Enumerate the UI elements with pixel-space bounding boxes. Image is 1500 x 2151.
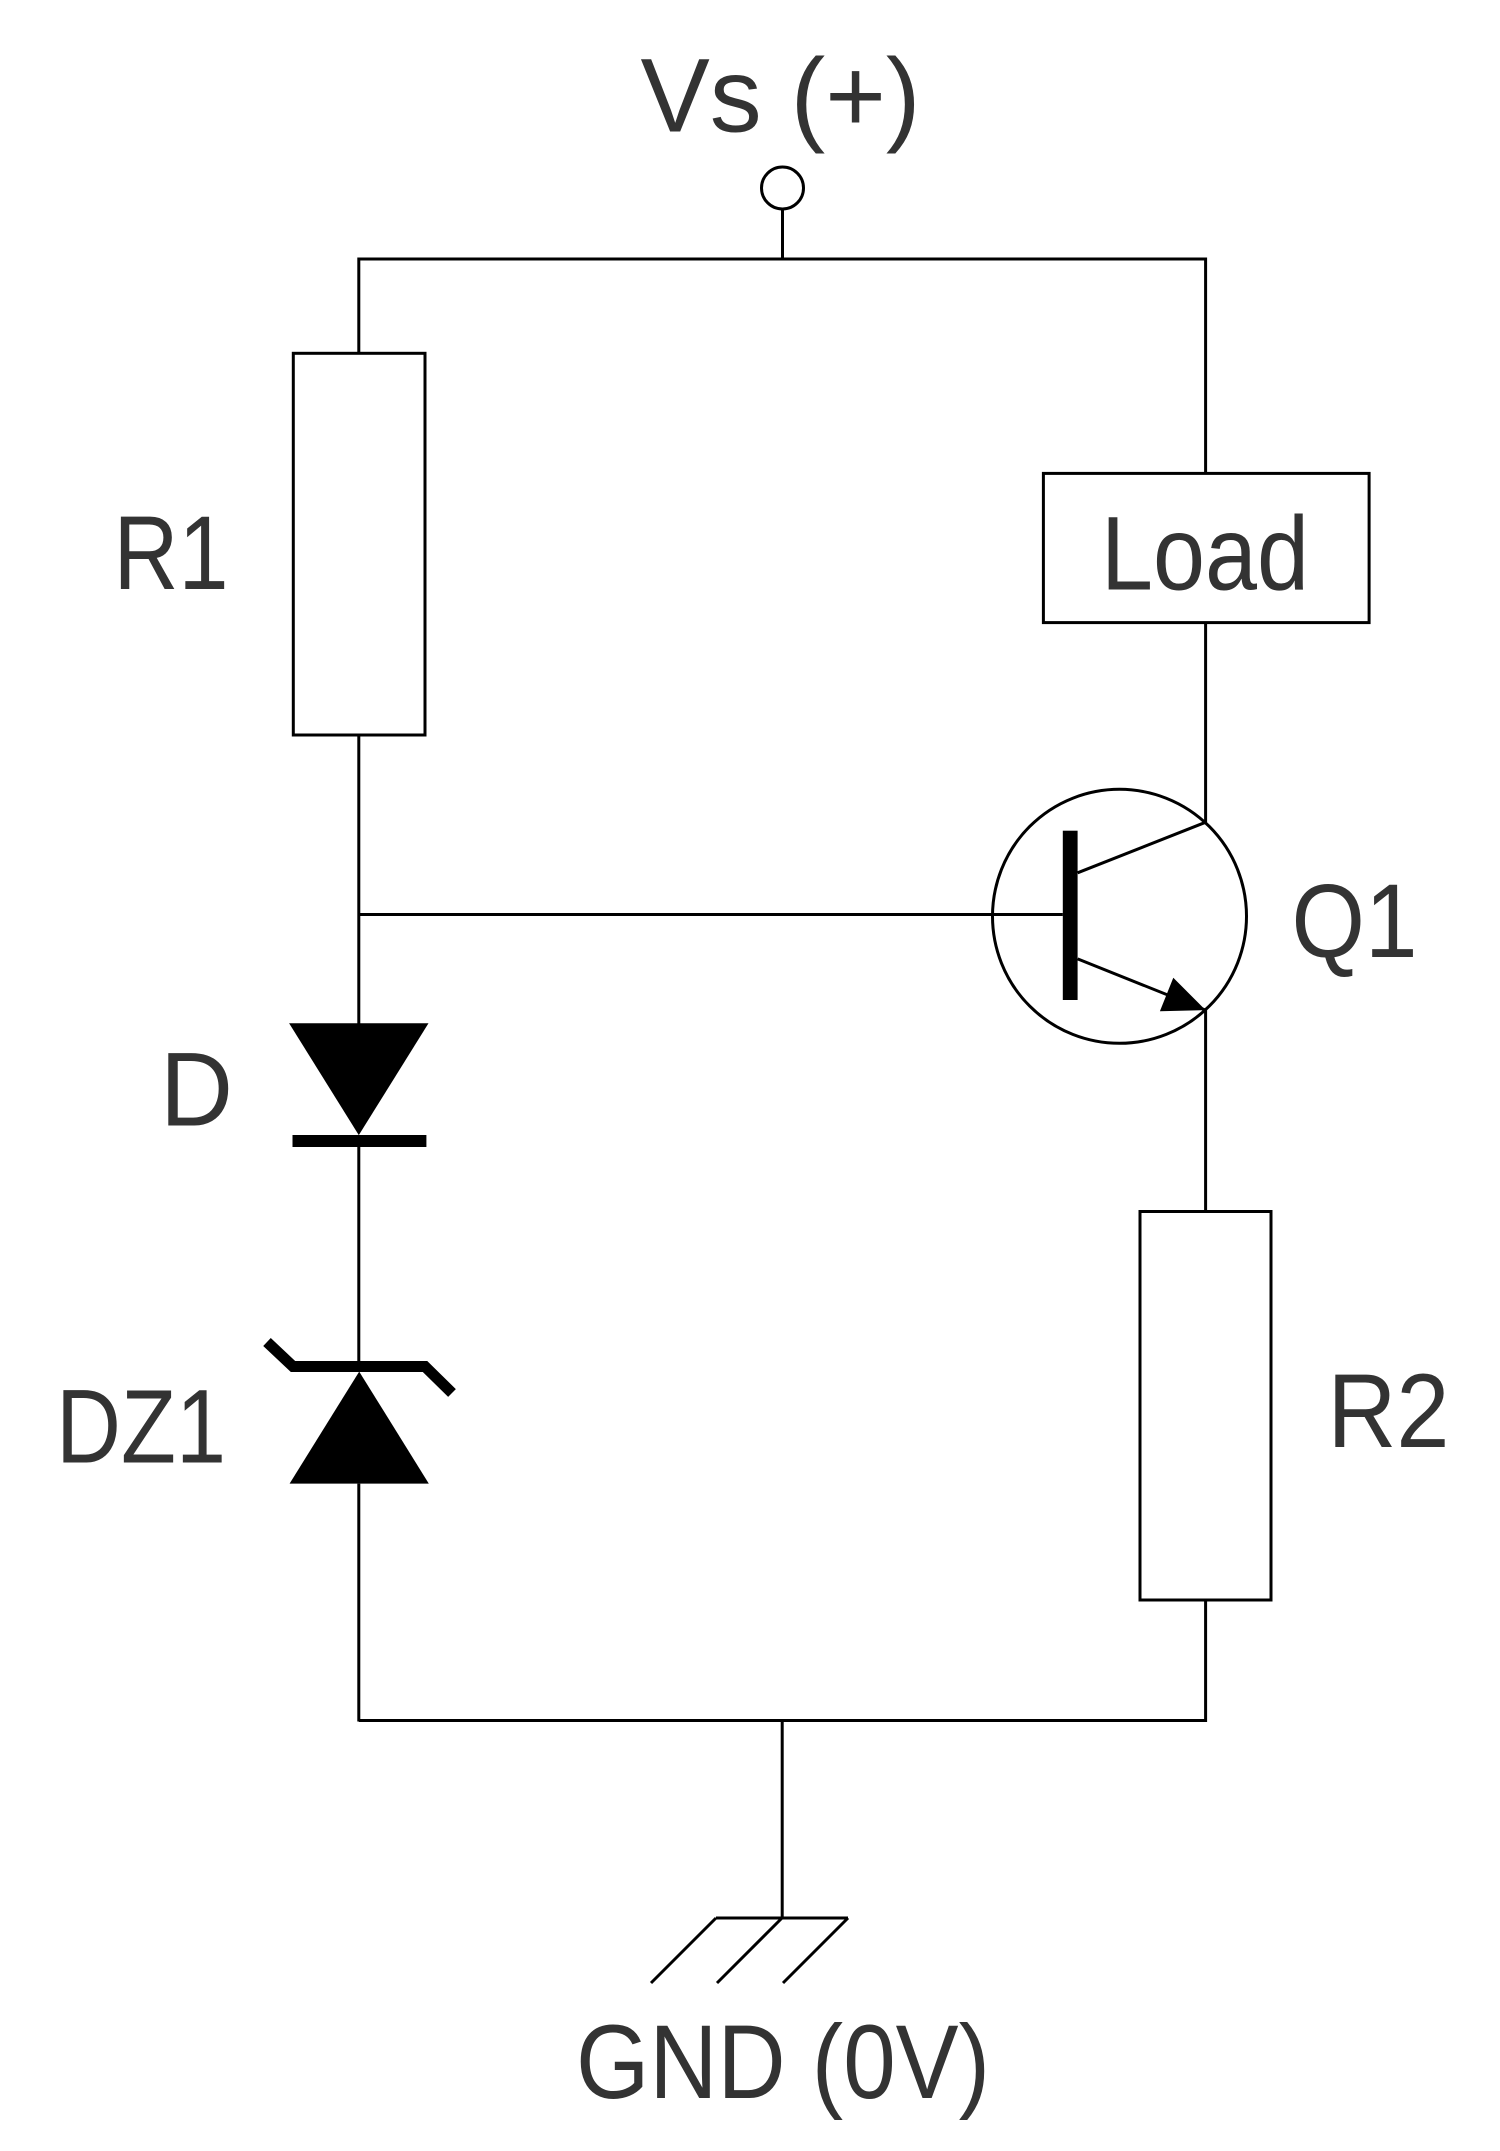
wire terminal to top rail — [781, 209, 784, 259]
wire bottom rail to ground — [781, 1720, 784, 1919]
zener DZ1 (triangle) — [290, 1372, 429, 1484]
svg-text:D: D — [160, 1032, 233, 1149]
ground hatch 2 — [717, 1918, 782, 1983]
resistor R2 — [1140, 1212, 1271, 1601]
transistor Q1 emitter arrowhead — [1160, 978, 1206, 1011]
wire top rail — [359, 259, 1206, 474]
ground hatch 3 — [783, 1918, 848, 1983]
svg-text:DZ1: DZ1 — [56, 1368, 226, 1485]
transistor Q1 body circle — [993, 789, 1247, 1043]
svg-text:Vs (+): Vs (+) — [641, 38, 921, 155]
transistor Q1 emitter line — [1078, 959, 1206, 1010]
svg-text:Q1: Q1 — [1292, 863, 1418, 980]
diode D (triangle) — [289, 1023, 428, 1135]
wire R1 to diode D — [357, 735, 360, 1024]
transistor Q1 base bar — [1063, 831, 1078, 1000]
terminal Vs (open circle) — [762, 167, 804, 209]
zener DZ1 cathode bar with bent ends — [267, 1342, 452, 1393]
wire D to DZ1 — [357, 1147, 360, 1362]
svg-text:GND (0V): GND (0V) — [576, 2004, 990, 2121]
ground hatch 1 — [651, 1918, 716, 1983]
resistor R1 — [293, 353, 425, 735]
diode D cathode bar — [293, 1135, 427, 1147]
svg-text:R2: R2 — [1328, 1353, 1450, 1470]
load box — [1043, 473, 1369, 622]
ground bar — [716, 1917, 848, 1920]
wire base (node to Q1 base) — [359, 913, 1063, 916]
transistor Q1 collector line — [1078, 822, 1206, 873]
wire DZ1 to bottom rail — [357, 1484, 360, 1722]
svg-text:Load: Load — [1101, 496, 1309, 613]
svg-text:R1: R1 — [114, 495, 229, 612]
wire Load to Q1 collector — [1204, 623, 1207, 823]
wire Q1 emitter to R2 — [1204, 1010, 1207, 1212]
wire bottom rail — [359, 1602, 1206, 1721]
